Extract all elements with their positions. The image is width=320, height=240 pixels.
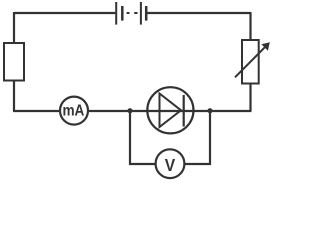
svg-text:V: V: [165, 155, 176, 175]
svg-text:mA: mA: [62, 103, 84, 120]
